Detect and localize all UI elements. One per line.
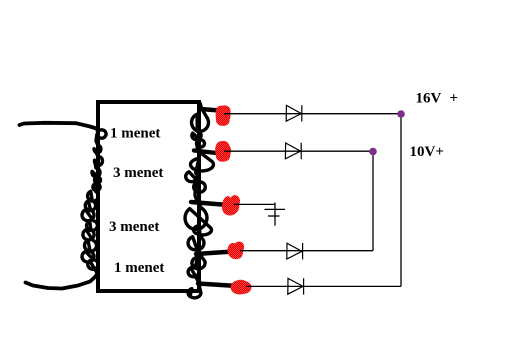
- wire row4 to 10V bus: [240, 250, 373, 252]
- wire row5 to 16V bus: [246, 285, 401, 287]
- wire row1 tap1 to 16V node: [224, 113, 401, 115]
- node 16V junction (purple): [397, 110, 405, 118]
- svg-text:16V+: 16V+: [416, 91, 459, 107]
- node tap5 (red): [231, 280, 252, 295]
- svg-text:1 menet: 1 menet: [110, 126, 160, 142]
- node tap2 (red): [215, 141, 231, 162]
- svg-text:1 menet: 1 menet: [114, 260, 164, 276]
- ground symbol: [265, 203, 286, 226]
- diode D1: [286, 105, 302, 121]
- diode D3: [287, 243, 303, 259]
- svg-text:10V+: 10V+: [410, 144, 444, 160]
- wire row3 centre tap to ground: [234, 203, 275, 205]
- transformer T1 core: [98, 102, 199, 291]
- wire primary bottom lead: [26, 274, 98, 289]
- inductor primary winding (left): [82, 129, 106, 273]
- node tap1 (red): [216, 105, 231, 125]
- diode D2: [285, 143, 301, 159]
- wire stub to tap2: [194, 151, 221, 154]
- wire stub to tap4: [196, 252, 233, 255]
- wire primary top lead: [20, 123, 99, 129]
- wire stub to tap3: [191, 202, 228, 205]
- inductor secondary winding (right, tapped): [185, 103, 214, 298]
- svg-text:3 menet: 3 menet: [109, 219, 159, 235]
- wire stub to tap1: [200, 109, 220, 111]
- wire 10V vertical bus: [372, 151, 374, 251]
- node tap3 centre (red): [222, 195, 240, 215]
- node tap4 (red): [227, 241, 244, 259]
- wire row2 tap2 to 10V node: [224, 150, 373, 152]
- wire 16V vertical bus: [400, 114, 402, 287]
- wire stub to tap5: [198, 284, 237, 287]
- node 10V junction (purple): [369, 148, 377, 156]
- svg-text:3 menet: 3 menet: [113, 165, 163, 181]
- diode D4: [288, 278, 304, 294]
